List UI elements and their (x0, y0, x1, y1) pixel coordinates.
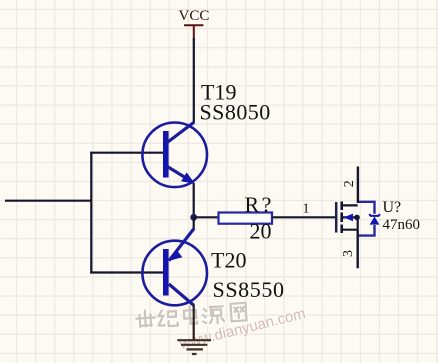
power VCC bar symbol (184, 25, 203, 39)
svg-text:R?: R? (245, 192, 274, 217)
gate bar (335, 202, 338, 233)
wire base bus vertical (90, 152, 92, 274)
svg-text:SS8050: SS8050 (200, 100, 271, 125)
drain stub (342, 204, 358, 206)
wire T20 collector to ground (193, 305, 195, 340)
channel segments (340, 202, 343, 211)
pin 2 wire (drain) (357, 167, 359, 204)
svg-text:1: 1 (303, 202, 310, 217)
svg-text:20: 20 (250, 219, 272, 244)
wire to T19 base (90, 152, 163, 154)
mosfet U? body (336, 202, 379, 236)
svg-text:47n60: 47n60 (383, 217, 421, 233)
svg-text:T20: T20 (211, 248, 246, 273)
svg-text:3: 3 (341, 250, 356, 257)
wire node to T20 emitter (193, 217, 195, 229)
bulk stub with arrow (342, 216, 358, 218)
wire input left (5, 200, 91, 202)
wire node to resistor (194, 216, 219, 218)
diode cathode bar (370, 214, 379, 216)
node junction dot (190, 214, 197, 221)
watermark www.dianyuan.com (177, 305, 309, 354)
transistor Q T20 body (142, 229, 207, 306)
pin 3 wire (source) (357, 230, 359, 269)
resistor R? body (219, 213, 273, 224)
svg-text:SS8550: SS8550 (213, 277, 285, 302)
svg-text:U?: U? (383, 199, 402, 216)
ground symbol (177, 340, 211, 354)
wire resistor to gate pin1 (272, 216, 336, 218)
body diode branch (358, 202, 375, 236)
wire to T20 base (90, 271, 163, 273)
wire VCC to T19 collector (193, 38, 195, 123)
source stub (342, 229, 358, 231)
transistor Q T19 body (142, 122, 207, 187)
watermark 世纪电源网 (136, 303, 248, 329)
wire T19 emitter to node (193, 183, 195, 218)
svg-text:VCC: VCC (179, 8, 210, 24)
svg-text:2: 2 (342, 180, 357, 187)
diode anode triangle (370, 217, 380, 225)
